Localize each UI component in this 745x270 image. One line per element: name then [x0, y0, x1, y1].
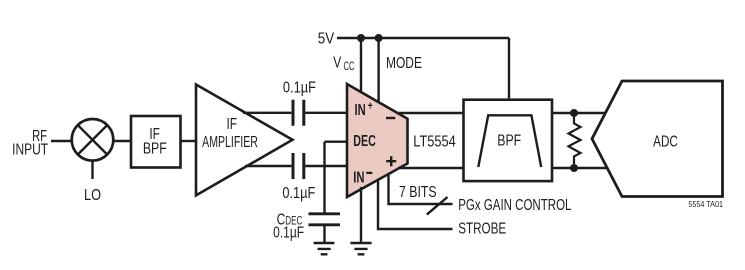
- svg-text:0.1µF: 0.1µF: [273, 223, 304, 241]
- svg-text:5554 TA01: 5554 TA01: [688, 200, 723, 210]
- svg-text:INPUT: INPUT: [12, 140, 48, 158]
- svg-text:LT5554: LT5554: [413, 133, 455, 151]
- svg-text:0.1µF: 0.1µF: [282, 185, 315, 203]
- svg-text:0.1µF: 0.1µF: [283, 79, 316, 97]
- svg-text:AMPLIFIER: AMPLIFIER: [202, 133, 258, 151]
- svg-text:7 BITS: 7 BITS: [399, 184, 437, 202]
- svg-text:5V: 5V: [318, 30, 335, 47]
- svg-text:CC: CC: [344, 60, 355, 73]
- svg-text:LO: LO: [84, 187, 101, 205]
- svg-text:BPF: BPF: [497, 132, 521, 150]
- svg-text:IF: IF: [226, 114, 237, 132]
- svg-text:V: V: [333, 53, 341, 71]
- svg-text:STROBE: STROBE: [458, 218, 506, 236]
- svg-text:IN: IN: [353, 168, 364, 187]
- svg-text:MODE: MODE: [386, 53, 422, 71]
- svg-text:PGx GAIN CONTROL: PGx GAIN CONTROL: [458, 195, 571, 213]
- svg-text:BPF: BPF: [143, 140, 167, 158]
- svg-text:+: +: [368, 100, 373, 113]
- svg-text:ADC: ADC: [653, 132, 678, 150]
- svg-text:DEC: DEC: [353, 132, 376, 150]
- svg-text:IN: IN: [355, 100, 366, 119]
